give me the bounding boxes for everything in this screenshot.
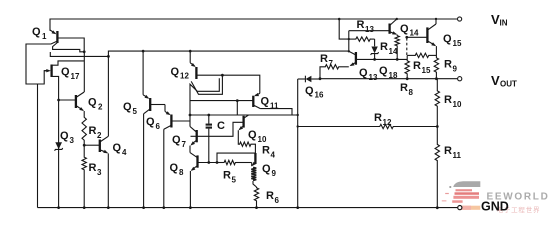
resistor R8 bbox=[406, 55, 408, 60]
wire Q12 collector hook inner bbox=[190, 78, 219, 126]
svg-text:GND: GND bbox=[481, 200, 509, 214]
node VOUT terminal bbox=[458, 77, 462, 81]
wire R11 to ground bbox=[436, 162, 438, 208]
svg-text:C: C bbox=[217, 120, 225, 132]
svg-text:R: R bbox=[357, 19, 365, 31]
svg-text:8: 8 bbox=[409, 88, 414, 97]
svg-text:7: 7 bbox=[329, 59, 334, 68]
svg-text:Q: Q bbox=[88, 97, 97, 109]
wire Q16 anode bbox=[298, 78, 306, 80]
wire Q4 base bbox=[84, 144, 100, 146]
svg-text:12: 12 bbox=[180, 72, 189, 81]
svg-text:Q: Q bbox=[262, 163, 271, 175]
svg-text:Q: Q bbox=[146, 116, 155, 128]
wire Q17 source bbox=[52, 76, 59, 142]
svg-text:Q: Q bbox=[171, 66, 180, 78]
svg-text:R: R bbox=[320, 53, 328, 65]
svg-text:2: 2 bbox=[97, 131, 102, 140]
svg-text:13: 13 bbox=[369, 73, 378, 82]
svg-text:R: R bbox=[380, 41, 388, 53]
svg-text:R: R bbox=[400, 82, 408, 94]
wire Q17 drain bbox=[52, 61, 85, 65]
wire Q12 emitter drop bbox=[189, 51, 191, 63]
svg-text:Q: Q bbox=[379, 65, 388, 77]
svg-text:3: 3 bbox=[97, 168, 102, 177]
node Q4 base junction bbox=[83, 144, 86, 147]
wire Q4 emitter to ground bbox=[107, 153, 109, 207]
wire adjust column bbox=[297, 79, 299, 208]
svg-text:8: 8 bbox=[179, 168, 184, 177]
svg-text:Q: Q bbox=[305, 85, 314, 97]
transistor Q1 bbox=[56, 31, 58, 43]
svg-text:OUT: OUT bbox=[500, 80, 517, 89]
node Q11 base junction bbox=[236, 99, 239, 102]
svg-text:V: V bbox=[491, 73, 500, 88]
svg-text:Q: Q bbox=[113, 142, 122, 154]
svg-text:R: R bbox=[444, 145, 452, 157]
svg-text:Q: Q bbox=[60, 130, 69, 142]
svg-text:Q: Q bbox=[61, 66, 70, 78]
transistor Q2 bbox=[75, 95, 77, 108]
svg-text:Q: Q bbox=[443, 33, 452, 45]
wire dashed sense bbox=[406, 38, 408, 55]
svg-text:R: R bbox=[89, 125, 97, 137]
wire Q11 base bbox=[190, 100, 253, 102]
resistor R6 bbox=[254, 187, 258, 202]
wire Q15 emitter to R9 bbox=[435, 46, 437, 57]
svg-text:6: 6 bbox=[156, 122, 161, 131]
transistor Q15 bbox=[426, 27, 428, 43]
transistor Q4 bbox=[99, 140, 101, 153]
svg-text:Q: Q bbox=[248, 129, 257, 141]
svg-text:Q: Q bbox=[359, 67, 368, 79]
wire Q6 base bbox=[171, 120, 190, 122]
transistor Q14 bbox=[388, 24, 390, 34]
svg-text:12: 12 bbox=[383, 118, 392, 127]
svg-text:Q: Q bbox=[170, 162, 179, 174]
transistor Q11 bbox=[252, 96, 254, 107]
svg-text:Q: Q bbox=[261, 96, 270, 108]
svg-text:Q: Q bbox=[400, 23, 409, 35]
wire Q1 collector hook outer bbox=[57, 38, 84, 52]
wire rail1 tap bbox=[338, 18, 341, 21]
svg-text:7: 7 bbox=[182, 140, 187, 149]
wire Q7 collector / cap node bbox=[190, 114, 298, 116]
wire Q2 base bbox=[59, 99, 76, 101]
svg-text:15: 15 bbox=[453, 39, 462, 48]
wire ground rail bbox=[38, 207, 458, 209]
svg-text:15: 15 bbox=[422, 66, 431, 75]
svg-text:14: 14 bbox=[389, 47, 398, 56]
transistor Q17 bbox=[50, 65, 52, 78]
capacitor C bbox=[208, 115, 210, 124]
svg-text:R: R bbox=[89, 162, 97, 174]
node Q2 base junction bbox=[57, 99, 60, 102]
svg-text:Q: Q bbox=[32, 26, 41, 38]
svg-text:18: 18 bbox=[389, 71, 398, 80]
resistor R5 bbox=[224, 160, 237, 164]
svg-text:IN: IN bbox=[500, 19, 508, 28]
resistor R3 bbox=[82, 157, 86, 171]
svg-text:4: 4 bbox=[122, 148, 127, 157]
wire Q1 collector hook inner bbox=[53, 43, 85, 52]
wire Q1 base loop bbox=[26, 41, 57, 84]
svg-text:3: 3 bbox=[70, 136, 75, 145]
node GND terminal bbox=[458, 206, 462, 210]
resistor R11 bbox=[435, 144, 439, 162]
svg-text:10: 10 bbox=[258, 135, 267, 144]
wire R14 bottom leg bbox=[396, 47, 398, 60]
svg-text:11: 11 bbox=[453, 151, 462, 160]
svg-text:1: 1 bbox=[42, 32, 47, 41]
resistor R13 bbox=[349, 38, 355, 40]
wire Q6 collector to ground bbox=[163, 129, 165, 207]
transistor Q6 bbox=[170, 115, 172, 128]
svg-text:6: 6 bbox=[275, 196, 280, 205]
wire Q11 collector run bbox=[260, 109, 292, 115]
transistor Q5 bbox=[149, 98, 151, 111]
svg-text:17: 17 bbox=[71, 72, 80, 81]
wire Q16 cathode bbox=[311, 78, 320, 80]
wire top VIN rail bbox=[50, 19, 457, 31]
wire R2 to R3 bbox=[83, 142, 85, 157]
wire Q13 collector riser bbox=[348, 31, 350, 52]
svg-text:R: R bbox=[223, 170, 231, 182]
svg-text:5: 5 bbox=[133, 107, 138, 116]
wire R4 to Q9 collector bbox=[252, 144, 256, 153]
svg-text:9: 9 bbox=[272, 169, 277, 178]
wire Q5 collector to ground bbox=[143, 114, 145, 208]
wire VOUT rail bbox=[320, 78, 458, 80]
svg-text:11: 11 bbox=[270, 102, 279, 111]
svg-text:14: 14 bbox=[410, 29, 419, 38]
wire Q12 collector hook outer bbox=[191, 75, 222, 94]
svg-text:16: 16 bbox=[315, 91, 324, 100]
svg-text:13: 13 bbox=[365, 25, 374, 34]
wire Q2 collector riser bbox=[83, 52, 85, 92]
transistor Q7 bbox=[196, 130, 198, 142]
wire Q5 emitter drop bbox=[142, 51, 144, 95]
watermark logo gray swoosh bbox=[453, 181, 480, 187]
svg-text:R: R bbox=[413, 60, 421, 72]
resistor R12 bbox=[298, 126, 379, 128]
transistor Q12 bbox=[195, 67, 197, 79]
resistor R14 bbox=[396, 34, 398, 37]
node Q8 ground junction bbox=[189, 206, 192, 209]
wire mirror rail bbox=[108, 51, 348, 56]
wire Q12 collector to Q11 emitter bbox=[196, 75, 259, 93]
svg-text:9: 9 bbox=[453, 65, 458, 74]
wire R7 left leg bbox=[320, 67, 325, 79]
svg-text:R: R bbox=[444, 94, 452, 106]
svg-text:R: R bbox=[444, 59, 452, 71]
wire Q4 collector riser bbox=[107, 56, 109, 136]
zener Q18 bbox=[374, 39, 376, 46]
wire R10 top leg bbox=[436, 79, 438, 90]
svg-text:2: 2 bbox=[98, 103, 103, 112]
transistor Q13 bbox=[355, 52, 357, 65]
svg-text:Q: Q bbox=[172, 134, 181, 146]
svg-text:10: 10 bbox=[453, 100, 462, 109]
wire Q9 base bbox=[217, 153, 255, 162]
svg-text:R: R bbox=[262, 145, 270, 157]
wire left ground drop bbox=[37, 84, 39, 208]
wire Q10 emitter to R4 bbox=[237, 130, 240, 144]
wire Q13 base / zener node bbox=[356, 58, 407, 60]
svg-text:R: R bbox=[266, 190, 274, 202]
wire Q5 base to Q6 bbox=[150, 104, 165, 106]
resistor R15 bbox=[407, 54, 414, 56]
zener Q3 bbox=[55, 142, 62, 149]
transistor Q10 bbox=[242, 116, 244, 128]
transistor Q8 bbox=[196, 155, 198, 167]
svg-text:Q: Q bbox=[123, 101, 132, 113]
wire Q1 collector lower run bbox=[50, 52, 108, 56]
transistor Q9 bbox=[254, 153, 256, 164]
wire Q2 emitter to R2 bbox=[83, 111, 85, 116]
wire Q8 emitter to ground bbox=[189, 171, 191, 208]
svg-text:R: R bbox=[374, 112, 382, 124]
wire R7 to Q13 emitter bbox=[340, 66, 349, 68]
node VIN terminal bbox=[458, 17, 462, 21]
svg-text:5: 5 bbox=[232, 176, 237, 185]
svg-text:4: 4 bbox=[271, 151, 276, 160]
watermark logo red bars bbox=[456, 189, 473, 191]
node R11 ground junction bbox=[436, 206, 439, 209]
resistor R2 bbox=[82, 116, 86, 141]
wire Q11 base drop bbox=[236, 101, 238, 115]
resistor R4 bbox=[239, 142, 252, 146]
